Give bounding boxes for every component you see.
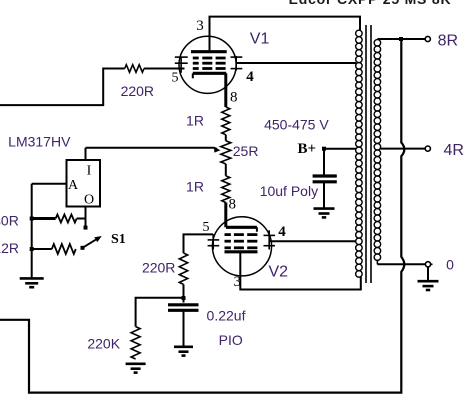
svg-text:O: O (84, 193, 94, 208)
resistor 2R row (label cut) (52, 244, 76, 254)
svg-text:220R: 220R (142, 259, 175, 275)
regulator U1 LM317HV body (67, 160, 101, 207)
svg-text:5: 5 (203, 220, 210, 235)
svg-text:Edcor CXPP 25 MS 8K: Edcor CXPP 25 MS 8K (289, 0, 452, 7)
V1 right grid rod and ticks (pin 4) (235, 56, 237, 71)
resistor 220R (V1 grid) (125, 65, 144, 73)
wire: V2 grid to 220R (184, 234, 214, 253)
node B+ (322, 147, 326, 151)
wire (183, 310, 185, 346)
terminal 8R (425, 36, 430, 41)
svg-text:220K: 220K (87, 335, 120, 351)
wire: to V2 cathode (pin 8) (224, 203, 227, 228)
node: junction grid network (182, 296, 186, 300)
V2 grid rows (225, 233, 231, 236)
wire: junction to 220K (136, 298, 184, 327)
wire: V1 cathode lead (pin 8) (224, 73, 227, 107)
wire: feedback from 8R tap around bottom to left edge (with hops) (0, 41, 404, 393)
svg-text:12R: 12R (0, 240, 19, 256)
V2 right grid rod and ticks (pin 4) (268, 230, 270, 249)
terminal 0 (425, 262, 430, 267)
ground (0 terminal) (418, 280, 439, 283)
svg-text:3: 3 (234, 274, 242, 290)
resistor 0R row (label cut) (56, 215, 77, 223)
svg-text:8R: 8R (438, 32, 458, 49)
wire row1 right (77, 218, 86, 220)
wire (thick) row1 (32, 217, 56, 220)
svg-text:3: 3 (196, 18, 204, 34)
resistor 220R (V2 grid) (179, 253, 187, 284)
wire: LM317 output pin down (85, 207, 87, 219)
wire: secondary bottom to 0 terminal (376, 260, 378, 265)
svg-text:25R: 25R (233, 143, 259, 159)
resistor 1R (lower) (222, 176, 230, 203)
capacitor 0.22uf PIO (168, 303, 199, 306)
wire: V1 pin 4 (screen) to primary UL tap (236, 62, 356, 64)
wire: secondary top to 8R terminal (377, 38, 425, 40)
svg-text:1R: 1R (186, 112, 204, 128)
svg-text:240R: 240R (0, 212, 19, 228)
wire (323, 182, 325, 208)
capacitor 10uf Poly (313, 174, 337, 177)
wire: left rail down to ground (31, 184, 33, 278)
transformer T1 secondary winding (374, 40, 381, 47)
resistor 1R (upper) (222, 107, 230, 135)
svg-text:10uf Poly: 10uf Poly (260, 183, 318, 199)
ground (LM317 rail) (20, 277, 44, 280)
svg-text:4R: 4R (443, 142, 463, 159)
svg-text:V2: V2 (269, 264, 289, 281)
wire: V1 plate to transformer primary top (210, 17, 361, 52)
terminal 4R (425, 146, 430, 151)
svg-text:B+: B+ (298, 141, 317, 157)
wire: LM317 adjust pin to left rail (32, 183, 67, 185)
wire: input to V1 grid from left edge (0, 69, 125, 106)
node: junction left rail / row1 (30, 217, 34, 221)
node: 8R feedback junction (399, 37, 403, 41)
svg-text:PIO: PIO (219, 332, 243, 348)
tube V1 envelope (179, 36, 236, 93)
wire (183, 284, 185, 302)
transformer core (365, 25, 367, 283)
wire: secondary 4R tap (380, 148, 426, 150)
svg-text:5: 5 (172, 71, 179, 86)
svg-text:1R: 1R (186, 178, 204, 194)
svg-text:0: 0 (446, 257, 454, 273)
wire: 0 terminal to ground (427, 267, 429, 281)
ground (10uf) (314, 207, 335, 210)
svg-text:A: A (68, 178, 79, 193)
transformer T1 primary winding (356, 30, 363, 37)
ground (220K) (126, 362, 146, 365)
potentiometer 25R (221, 141, 231, 164)
resistor 220K (131, 327, 140, 359)
wire (225, 164, 227, 176)
wire: V2 pin 4 (screen) to primary UL tap (269, 240, 356, 242)
node: junction left rail / row2 (30, 247, 34, 251)
tube V2 envelope (212, 217, 271, 276)
wire: B+ to primary center tap (324, 148, 356, 150)
V1 control grid rows (193, 57, 199, 60)
V2 left grid rod and ticks (pin 5) (212, 234, 214, 249)
svg-text:8: 8 (230, 90, 238, 106)
wiper arrow of 25R from LM317 input (86, 148, 218, 149)
V1 left grid rod and ticks (pin 5) (180, 57, 182, 73)
wire: LM317 input pin riser (85, 148, 87, 160)
wire (225, 135, 227, 141)
wire: B+ down to 10uf (323, 149, 325, 176)
svg-text:V1: V1 (250, 31, 270, 48)
svg-text:4: 4 (278, 224, 286, 240)
svg-text:S1: S1 (111, 232, 126, 247)
svg-text:220R: 220R (121, 83, 154, 99)
wire: 220R to V1 pin 5 (144, 68, 185, 70)
wire row2 (32, 248, 52, 250)
wire: V2 plate (pin 3) to primary bottom (240, 252, 360, 290)
ground (0.22uf) (174, 345, 193, 348)
V1 cathode (193, 72, 226, 75)
switch S1 arm (81, 246, 85, 250)
svg-text:LM317HV: LM317HV (8, 134, 71, 150)
switch S1 fixed contact (85, 219, 87, 227)
svg-text:I: I (87, 164, 92, 179)
svg-text:8: 8 (229, 196, 237, 212)
V2 plate (225, 250, 258, 253)
V1 plate (pin 3) (191, 50, 227, 53)
svg-text:4: 4 (246, 69, 254, 85)
svg-text:0.22uf: 0.22uf (207, 307, 246, 323)
svg-text:450-475 V: 450-475 V (264, 117, 329, 133)
V2 cathode (226, 226, 257, 229)
